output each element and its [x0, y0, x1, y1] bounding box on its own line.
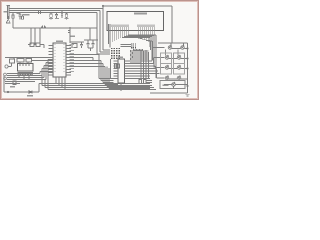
- wire y42 top of cluster: [70, 41, 84, 43]
- left risers to runs: [39, 69, 48, 93]
- pullup block R5: [72, 44, 77, 48]
- transistor feed drops: [171, 43, 184, 46]
- junction dot: [7, 91, 9, 93]
- lower wires: [5, 82, 35, 84]
- border frame: [1, 1, 199, 100]
- bottom pin runs right: [39, 84, 156, 90]
- rail C y12.5: [9, 12, 97, 14]
- label U3: [118, 57, 123, 58]
- transistor Q8: [177, 76, 181, 80]
- Q emitter links to rail: [169, 49, 188, 80]
- transistor Q6: [177, 66, 181, 70]
- J1 group B pin wires down: [138, 27, 154, 41]
- crystal Y1: [37, 11, 42, 14]
- DIP switch SW1 grid: [111, 48, 112, 49]
- U1 right long wires to bus bend: [66, 55, 99, 79]
- label net name: [23, 14, 30, 16]
- Q column links: [166, 50, 179, 56]
- caps cluster right of U3: [139, 80, 142, 84]
- U1 right pin stubs: [66, 46, 71, 76]
- U1 right pin labels: [70, 44, 75, 45]
- rail B y10.5: [9, 10, 100, 12]
- U3 ground: [119, 83, 123, 90]
- label R1 value: [17, 13, 20, 14]
- resistor R4: [66, 13, 68, 15]
- top wire y6: [103, 5, 172, 7]
- ground flag: [6, 16, 11, 23]
- label R4 value: [65, 18, 69, 19]
- fan risers to transistors: [152, 48, 165, 79]
- box above keypad A: [17, 59, 24, 63]
- ground right: [185, 95, 189, 96]
- capacitor C3: [61, 11, 63, 19]
- resistor R1: [12, 13, 14, 16]
- wire x31 down: [30, 28, 32, 45]
- U1 left pin stubs: [49, 46, 54, 76]
- U1 bottom pins: [56, 77, 65, 90]
- label VCC: [4, 11, 8, 13]
- U3 right wires fan: [125, 61, 160, 79]
- wire loop row2-3: [161, 53, 172, 64]
- J1 pin squares group A: [112, 25, 113, 27]
- ribbon wires left: [7, 74, 46, 80]
- resistor R2: [22, 15, 24, 17]
- rail drop x97: [96, 13, 98, 55]
- power bus vertical pair: [7, 6, 11, 20]
- keypad pad squares: [18, 73, 20, 76]
- group A staircase to right: [122, 35, 156, 37]
- bottom box outline: [160, 81, 185, 89]
- riser bundle x150-158: [150, 35, 156, 78]
- transistor Q7: [165, 76, 169, 80]
- capacitor C1: [19, 13, 22, 20]
- rails join right y50: [97, 50, 110, 54]
- connector circle P1: [5, 65, 8, 68]
- MCU U1 body: [53, 43, 66, 77]
- wire x40 down: [39, 28, 41, 45]
- transistor Q4: [177, 56, 181, 60]
- wire boxes to U1: [20, 58, 53, 64]
- wire x90 down: [89, 28, 91, 40]
- U3 left pin stubs: [114, 61, 119, 79]
- junction dots: [187, 48, 188, 49]
- small box J2: [10, 59, 15, 63]
- right rail: [187, 43, 189, 93]
- transistor Q5: [165, 66, 169, 70]
- transistor Q1: [168, 46, 172, 50]
- transistor Q9: [172, 83, 176, 87]
- small box K1: [13, 81, 16, 85]
- transistor Q2: [181, 46, 185, 50]
- wire after diode: [32, 91, 39, 93]
- label C2 value: [55, 18, 59, 19]
- base resistor marks: [133, 49, 143, 51]
- resistor network RN2: [131, 43, 132, 44]
- label U1 name: [56, 41, 63, 43]
- capacitor C4: [87, 40, 90, 48]
- label J1 title: [134, 13, 147, 15]
- capacitor C6: [80, 42, 83, 48]
- bus pair from J1 left: [109, 24, 111, 48]
- LCD connector J1 box: [107, 12, 164, 31]
- bundle turn right to U3: [99, 79, 150, 89]
- VCC rail A y8.5: [9, 8, 103, 10]
- box above keypad B: [26, 59, 32, 63]
- U3 left feed wire: [110, 59, 112, 79]
- label bottom left: [10, 86, 15, 87]
- resistor R3: [50, 13, 52, 15]
- net tick x93: [66, 58, 95, 61]
- wire left edge down: [3, 76, 5, 92]
- Q9 wires: [164, 85, 188, 89]
- J1 pin squares group B: [138, 25, 139, 27]
- wire x70 down to IC: [68, 27, 70, 43]
- wire x35 down: [34, 28, 36, 45]
- label R3 value: [49, 18, 53, 19]
- decoupling rail y40: [84, 39, 98, 41]
- U1 inside pin numbers: [54, 43, 56, 46]
- rail drop x103: [102, 6, 104, 50]
- capacitor C5: [92, 40, 95, 48]
- keypad connector box: [18, 64, 34, 72]
- wire drop x172: [171, 6, 173, 43]
- transistor Q3: [165, 56, 169, 60]
- capacitor C2: [55, 13, 58, 20]
- label xtal value: [71, 36, 76, 38]
- caps below SW1: [115, 64, 117, 68]
- crystal Y2 ticks: [41, 26, 46, 29]
- bottom wire y92: [4, 91, 33, 93]
- node wire y28: [13, 27, 97, 29]
- rail drop x100: [99, 11, 101, 53]
- stub fan x141/146: [141, 50, 149, 80]
- staircase from keypad to U1 left pins: [40, 60, 48, 80]
- label diode: [27, 95, 33, 96]
- keypad pad drops: [19, 75, 29, 80]
- fan ticks: [131, 50, 133, 60]
- component cluster top-left of U1: [30, 43, 34, 47]
- keypad top ticks: [20, 64, 29, 67]
- connector circles P2: [4, 73, 7, 76]
- transistor rail top: [158, 42, 188, 44]
- bottom rail: [150, 92, 188, 94]
- group B staircase: [138, 38, 152, 41]
- wire joining caps: [88, 48, 93, 51]
- J1 group A pin wires down: [112, 27, 128, 42]
- driver IC U3: [118, 59, 125, 83]
- diode D1: [29, 91, 32, 94]
- wire y57: [5, 58, 34, 60]
